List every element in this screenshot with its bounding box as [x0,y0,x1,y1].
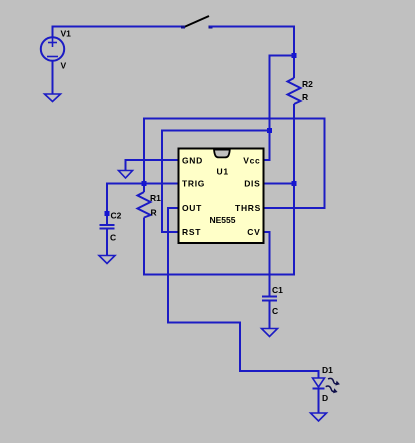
wire: GND pin 1 to ground symbol [126,160,179,171]
value label R (R1) [151,208,157,218]
wire: CV pin 5 to C1 top [264,232,270,297]
svg-text:GND: GND [182,156,203,166]
resistor R1 [138,192,151,218]
svg-text:C: C [272,306,278,316]
junction: Vcc node at top right [292,53,297,58]
wire: V1 negative terminal to ground [52,61,54,95]
wire: THRS feedback loop (THRS to TRIG node) [144,119,325,209]
wire: D1 cathode to ground [318,389,320,414]
value label C (C2) [110,233,116,243]
wire: Vcc node branch to Vcc pin 8 [264,56,295,161]
svg-text:NE555: NE555 [210,215,236,225]
wire: C1 bottom to ground [269,301,271,330]
svg-text:TRIG: TRIG [182,179,205,189]
wire: R1 top to TRIG node [143,184,145,193]
label R1 [150,193,161,203]
label C2 [111,211,122,221]
ground (GND pin of U1) [119,171,133,179]
svg-text:Vcc: Vcc [243,156,260,166]
svg-text:C2: C2 [111,211,122,221]
ground (below C2) [99,256,115,264]
ground (below V1) [45,94,61,102]
svg-text:V1: V1 [61,29,72,39]
label V1 [61,29,72,39]
label D1 [322,365,333,375]
svg-text:THRS: THRS [235,203,261,213]
junction: RST tie point on Vcc branch [267,128,272,133]
svg-text:D: D [322,393,328,403]
capacitor C1 [262,297,277,301]
svg-text:OUT: OUT [182,203,202,213]
label C1 [272,285,283,295]
switch S1 blade [181,16,213,29]
svg-text:CV: CV [247,227,260,237]
wire: V1 positive terminal up and right to switch [53,27,185,38]
voltage source V1 [41,37,64,60]
ground (below C1) [262,329,278,337]
svg-text:DIS: DIS [244,179,260,189]
ground (below D1) [311,413,327,421]
pin label TRIG (pin 2) [182,179,205,189]
junction: DIS node [292,181,297,186]
wire: TRIG pin 2 left to C2 top [107,184,179,226]
LED D1 [313,377,342,395]
wire: switch right terminal to R2 top [210,27,295,79]
svg-text:C: C [110,233,116,243]
svg-text:RST: RST [182,227,201,237]
svg-text:C1: C1 [272,285,283,295]
label NE555 [210,215,236,225]
label R2 [302,79,313,89]
IC U1 NE555 body [179,149,264,244]
svg-text:V: V [61,61,67,71]
svg-text:D1: D1 [322,365,333,375]
junction: TRIG/THRS node [142,181,147,186]
svg-text:R: R [302,92,308,102]
junction: C2 connection dot [105,211,110,216]
pin label Vcc (pin 8) [243,156,260,166]
value label V (V1) [61,61,67,71]
value label R (R2) [302,92,308,102]
pin label GND (pin 1) [182,156,203,166]
resistor R2 [288,78,301,104]
svg-text:R1: R1 [150,193,161,203]
wire: Vcc branch to RST pin 4 [162,131,270,233]
pin label DIS (pin 7) [244,179,260,189]
pin label CV (pin 5) [247,227,260,237]
svg-text:R2: R2 [302,79,313,89]
svg-text:U1: U1 [217,167,229,177]
label U1 [217,167,229,177]
wire: DIS node down and left to R1 bottom [144,184,294,275]
wire: C2 bottom to ground [106,229,108,257]
pin label OUT (pin 3) [182,203,202,213]
capacitor C2 [100,225,115,229]
wire: DIS pin 7 stub [264,183,295,185]
pin label THRS (pin 6) [235,203,261,213]
value label D (D1) [322,393,328,403]
svg-text:R: R [151,208,157,218]
value label C (C1) [272,306,278,316]
pin label RST (pin 4) [182,227,201,237]
wire: R2 bottom to DIS node [293,104,295,184]
wire: OUT pin 3 down and right to D1 anode [168,208,319,379]
